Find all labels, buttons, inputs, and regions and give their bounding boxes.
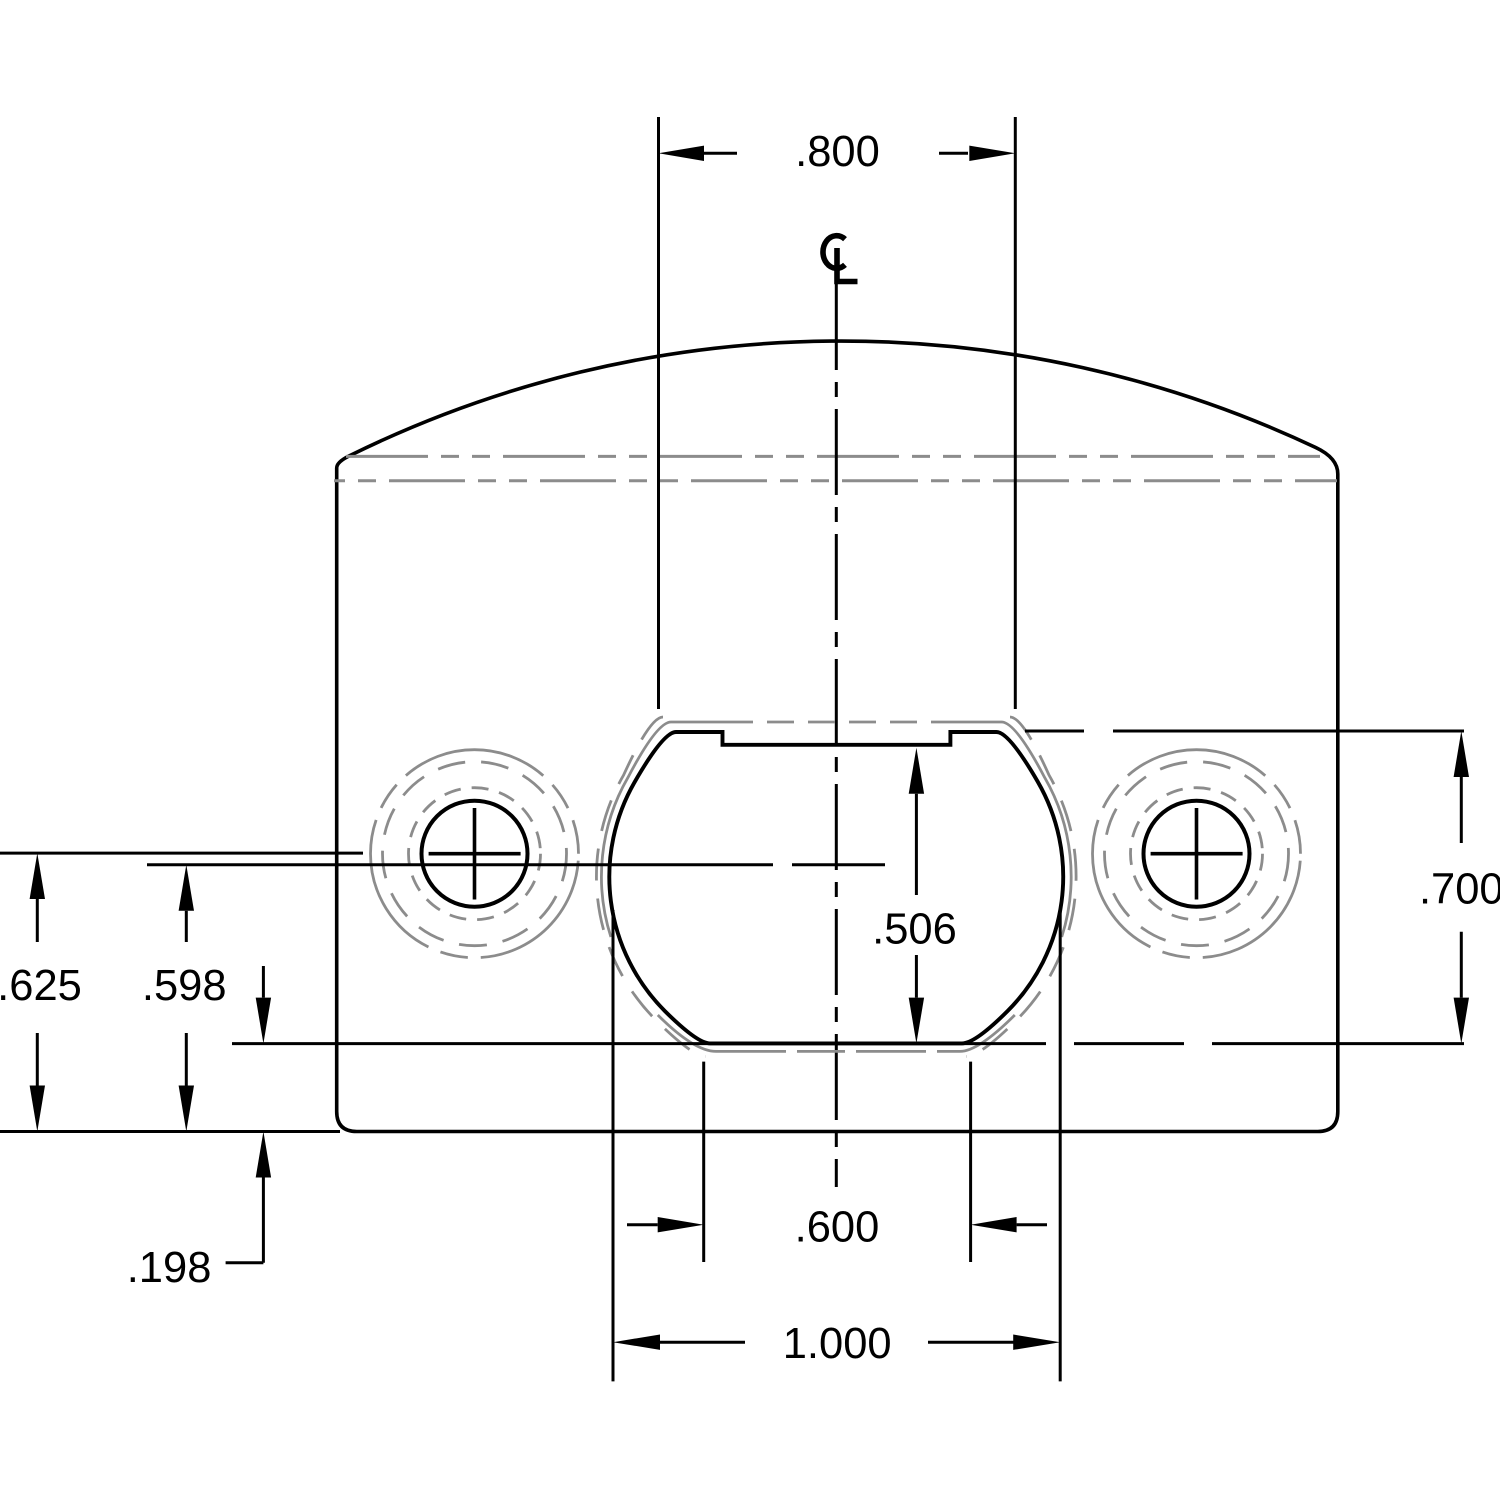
- left hole gray dashed circle r92: [383, 762, 567, 946]
- slot gray dashed outer outline left: [596, 717, 706, 1056]
- dimension .506: [909, 748, 924, 1044]
- svg-text:.506: .506: [872, 905, 957, 953]
- dimension .598: [179, 865, 194, 1132]
- extension line slot bottom y=1043.6: [232, 1042, 1464, 1045]
- right hole gray phantom circle r104: [1093, 750, 1301, 958]
- slot gray dashed bottom middle: [716, 1050, 960, 1053]
- left hole gray dashed circle r66: [409, 788, 541, 920]
- centerline vertical dash-dot: [835, 284, 838, 1187]
- extension line 1.000 right: [1059, 910, 1062, 1381]
- right hole black circle: [1144, 801, 1250, 907]
- svg-text:.600: .600: [795, 1203, 880, 1251]
- extension line .800 right: [1014, 117, 1017, 709]
- slot gray outline solid right part: [943, 722, 1071, 1051]
- dimension .800 line and arrows: [659, 146, 1016, 161]
- left hole gray phantom circle r104: [371, 750, 579, 958]
- dimension .600: [627, 1217, 1047, 1232]
- right hole gray dashed circle r92: [1105, 762, 1289, 946]
- svg-text:1.000: 1.000: [783, 1320, 892, 1368]
- svg-text:.625: .625: [0, 962, 82, 1010]
- extension line .600 right: [969, 1062, 972, 1262]
- extension line slot top right y=731: [1025, 730, 1464, 733]
- phantom line lower (gray): [334, 479, 1337, 482]
- svg-text:.198: .198: [127, 1244, 212, 1292]
- extension line .800 left: [657, 117, 660, 709]
- svg-text:.598: .598: [142, 962, 227, 1010]
- extension line y=853 (.625 top, hole centers): [0, 852, 363, 855]
- right hole gray dashed circle r66: [1131, 788, 1263, 920]
- CL centerline symbol: [823, 236, 858, 282]
- slot black outline: [609, 732, 1063, 1043]
- slot gray outline solid left part: [601, 722, 726, 1051]
- right hole crosshair: [1151, 808, 1243, 900]
- dimension .625: [30, 853, 45, 1131]
- svg-text:.800: .800: [795, 128, 880, 176]
- svg-text:.700: .700: [1419, 866, 1500, 914]
- extension line 1.000 left: [612, 910, 615, 1381]
- left hole black circle: [422, 801, 528, 907]
- extension line .600 left: [702, 1062, 705, 1262]
- extension line y=865 (.598 top): [147, 863, 885, 866]
- phantom line upper (gray): [346, 455, 1320, 458]
- slot gray dashed top middle: [726, 721, 943, 724]
- dimension .198 upper arrow: [226, 966, 272, 1263]
- extension line bottom edge left of body: [0, 1130, 340, 1133]
- slot gray dashed outer outline right: [966, 717, 1076, 1056]
- left hole crosshair: [429, 808, 521, 900]
- body outline of strike plate: [337, 341, 1338, 1131]
- dimension .700: [1454, 731, 1469, 1044]
- dimension 1.000: [613, 1335, 1060, 1350]
